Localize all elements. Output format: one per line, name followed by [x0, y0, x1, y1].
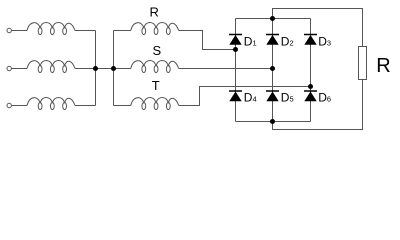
svg-text:T: T	[152, 78, 160, 93]
svg-text:D2: D2	[281, 35, 294, 49]
svg-text:R: R	[150, 5, 159, 20]
svg-text:D1: D1	[244, 35, 257, 49]
svg-text:D4: D4	[244, 91, 257, 105]
svg-text:D3: D3	[318, 35, 331, 49]
svg-text:R: R	[376, 55, 390, 77]
svg-text:D6: D6	[318, 91, 331, 105]
svg-text:S: S	[153, 43, 162, 58]
svg-text:D5: D5	[281, 91, 294, 105]
